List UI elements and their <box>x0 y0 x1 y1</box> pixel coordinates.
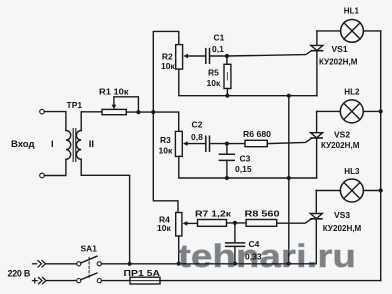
svg-text:C4: C4 <box>249 239 260 249</box>
wire: secondary bottom return to common rail <box>81 159 129 263</box>
resistor R3 10k potentiometer body <box>175 131 182 156</box>
wire: HL2 left lead to VS2 anode <box>317 110 341 112</box>
wire: R5 bottom to bus1 <box>226 89 228 96</box>
wire: VS2 anode lead <box>316 111 318 132</box>
wire: R3 bottom to channel-2 bus <box>179 156 317 178</box>
wire: C4 bottom to common rail <box>234 247 236 264</box>
wire: feed down to R4 top <box>153 112 178 212</box>
node: common link on bottom rail <box>287 262 291 266</box>
svg-text:R6 680: R6 680 <box>243 129 271 139</box>
svg-text:VS1: VS1 <box>332 44 348 54</box>
transformer TP1 secondary winding II <box>76 131 81 160</box>
wire: switch to fuse <box>101 280 130 282</box>
wire: 220V minus line to switch <box>46 263 77 265</box>
wire: HL1 right lead to supply bus <box>363 30 380 32</box>
R3 wiper arrowhead <box>183 141 188 146</box>
node: input terminal top <box>40 109 45 114</box>
node: HL3 on right bus <box>379 188 383 192</box>
wire: R7 to R8 <box>227 222 247 224</box>
thyristor VS3 <box>310 214 322 219</box>
wire: common vertical link <box>288 96 290 264</box>
svg-text:II: II <box>89 139 94 150</box>
svg-text:R5: R5 <box>208 68 219 78</box>
switch SA1 pole 2 <box>77 273 102 283</box>
svg-text:SA1: SA1 <box>81 244 98 254</box>
wire: common rail (minus) <box>101 263 316 265</box>
node: C1/R5/gate junction <box>225 54 229 58</box>
wire: secondary top to R1 <box>81 112 102 131</box>
svg-text:HL1: HL1 <box>344 6 360 15</box>
node: R5 on bus1 <box>225 94 229 98</box>
svg-text:HL3: HL3 <box>344 167 360 176</box>
resistor R4 10k potentiometer body <box>176 213 182 237</box>
wire: junction down to C3 <box>226 144 228 154</box>
wire: R3 wiper to C2 <box>187 143 205 145</box>
svg-text:C1: C1 <box>214 33 225 43</box>
wire: HL1 left lead to VS1 anode <box>317 30 341 32</box>
minus polarity symbol <box>33 261 46 267</box>
lamp HL1 <box>341 20 364 43</box>
node: HL2 on right bus <box>379 109 383 113</box>
capacitor C2 0.8 <box>206 136 210 151</box>
node: C2/C3/R6 junction <box>225 142 229 146</box>
svg-text:VS2: VS2 <box>334 130 350 140</box>
svg-text:0,1: 0,1 <box>212 44 224 54</box>
wire: VS3 gate wire <box>277 219 312 223</box>
wire: VS1 gate wire <box>227 51 312 56</box>
wire: R2 wiper to C1 <box>188 55 206 57</box>
wire: VS3 anode lead <box>315 191 317 214</box>
resistor R7 1.2k <box>198 220 227 227</box>
svg-text:Вход: Вход <box>11 139 35 150</box>
svg-text:R1 10к: R1 10к <box>99 86 129 96</box>
wire: C2 to junction <box>210 143 227 145</box>
node: transformer return on common rail <box>128 262 132 266</box>
wire: VS1 anode lead <box>316 31 318 46</box>
fuse PR1 5A <box>130 277 160 284</box>
svg-text:10к: 10к <box>157 223 171 233</box>
wire: fuse to right bus <box>160 280 381 282</box>
capacitor C3 0.15 <box>219 154 234 160</box>
lamp HL3 <box>340 179 363 202</box>
wire: junction to R6 <box>227 143 245 145</box>
capacitor C4 0.33 <box>226 243 245 247</box>
node: R4 on common rail <box>177 262 181 266</box>
wire: input bottom to primary winding <box>44 159 66 175</box>
svg-text:0,15: 0,15 <box>235 164 252 174</box>
switch SA1 pole 1 <box>77 256 102 266</box>
svg-text:HL2: HL2 <box>344 88 360 97</box>
wire: junction down to C4 <box>234 223 236 243</box>
svg-text:КУ202Н,М: КУ202Н,М <box>323 223 362 233</box>
svg-text:0,33: 0,33 <box>245 252 262 262</box>
node: main bus tap for R2/R4 feed <box>151 110 155 114</box>
switch SA1 link (dashed) <box>88 257 90 278</box>
wire: C1 to junction <box>210 55 227 57</box>
wire: HL3 left lead to VS3 anode <box>316 190 340 192</box>
node: input terminal bottom <box>40 173 45 178</box>
svg-text:КУ202Н,М: КУ202Н,М <box>321 140 360 150</box>
resistor R1 10k potentiometer body <box>102 109 126 114</box>
thyristor VS1 <box>311 45 323 50</box>
R2 wiper arrowhead <box>183 54 188 59</box>
svg-text:R8 560: R8 560 <box>245 209 280 219</box>
wire: VS1 cathode lead to bus1 <box>316 51 318 96</box>
thyristor VS2 <box>311 133 323 138</box>
svg-text:С2: С2 <box>192 119 203 129</box>
wire: R1 wiper loop <box>114 97 138 112</box>
resistor R2 10k potentiometer body <box>176 45 183 70</box>
wire: R4 bottom to common rail <box>178 236 180 264</box>
node: C3 on bus2 <box>225 176 229 180</box>
wire: input top to primary winding <box>44 112 66 131</box>
transformer TP1 primary winding I <box>66 131 71 160</box>
node: C4 on common rail <box>233 262 237 266</box>
svg-text:R2: R2 <box>162 51 173 61</box>
svg-text:10к: 10к <box>207 78 221 88</box>
wire: VS2 cathode lead to bus2 <box>316 138 318 178</box>
wire: right supply bus <box>380 31 382 281</box>
wire: VS2 gate wire <box>267 139 311 144</box>
svg-text:ТР1: ТР1 <box>67 100 83 110</box>
wire: R4 wiper to R7 <box>187 222 198 224</box>
wire: feed up to R2 top <box>153 31 179 112</box>
svg-text:10к: 10к <box>159 145 173 155</box>
svg-text:220 В: 220 В <box>8 269 31 279</box>
svg-text:VS3: VS3 <box>334 210 350 220</box>
node: R7/R8/C4 junction <box>233 221 237 225</box>
svg-text:I: I <box>51 139 54 150</box>
wire: C3 bottom to bus2 <box>226 161 228 178</box>
svg-text:0,8: 0,8 <box>191 132 203 142</box>
node: common link on bus2 <box>287 176 291 180</box>
svg-text:10к: 10к <box>161 61 175 71</box>
resistor R8 560 <box>246 220 277 227</box>
R4 wiper arrowhead <box>183 221 188 226</box>
resistor R6 680 <box>245 140 267 146</box>
transformer TP1 core <box>73 129 76 162</box>
svg-text:КУ202Н,М: КУ202Н,М <box>319 56 358 66</box>
wire: 220V plus line to switch <box>46 280 77 282</box>
node: R1 wiper junction <box>136 110 140 114</box>
plus polarity symbol <box>33 277 47 283</box>
R1 wiper arrowhead <box>112 105 117 110</box>
svg-text:R7 1,2к: R7 1,2к <box>195 209 232 219</box>
resistor R5 10k <box>224 64 231 88</box>
wire: HL2 right lead to supply bus <box>363 110 380 112</box>
node: common dropper on bus1 <box>287 94 291 98</box>
wire: junction down to R5 <box>226 56 228 64</box>
svg-text:С3: С3 <box>240 154 251 164</box>
svg-text:R3: R3 <box>160 135 171 145</box>
wire: main bus from R1 to R3 top <box>126 112 178 131</box>
R5 inner mark <box>226 73 228 81</box>
capacitor C1 0.1 <box>206 49 210 64</box>
wire: VS3 cathode lead to common rail <box>315 219 317 264</box>
svg-text:tehnari.ru: tehnari.ru <box>178 238 356 274</box>
lamp HL2 <box>340 100 363 123</box>
wire: HL3 right lead to supply bus <box>363 190 380 192</box>
wire: R2 bottom to channel-1 bus <box>179 69 317 96</box>
svg-text:ПР1 5А: ПР1 5А <box>124 268 161 278</box>
